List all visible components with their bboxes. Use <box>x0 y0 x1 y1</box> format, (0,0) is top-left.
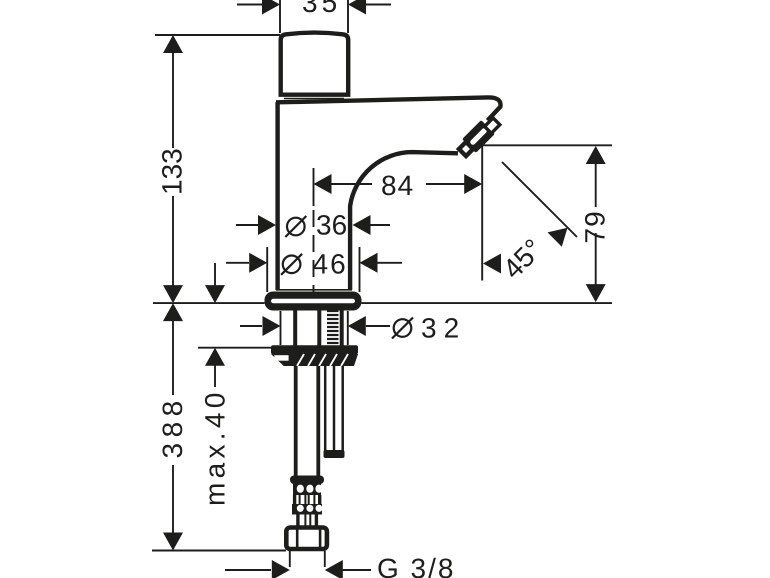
body left edge <box>275 102 279 290</box>
arrow max40 down to surface <box>205 285 225 303</box>
dim o46 tail left <box>226 262 249 264</box>
dim 79 line lower <box>595 233 597 286</box>
left pipe left edge <box>294 366 298 477</box>
spout vertical extension line <box>481 145 483 280</box>
svg-text:36: 36 <box>316 210 347 241</box>
dim 133 line lower <box>172 196 174 287</box>
arrow 35 left <box>262 0 280 15</box>
dim G38 extension stub right <box>324 551 326 567</box>
shank pipe right thick line <box>317 310 321 346</box>
label o36 <box>285 216 306 237</box>
dim 79 line upper <box>595 162 597 207</box>
arrow o46 right <box>360 253 378 273</box>
handle neck line <box>284 98 344 100</box>
right tube right edge <box>341 366 344 452</box>
aerator housing <box>462 120 495 153</box>
arrow G38 right <box>325 560 343 578</box>
handle knob <box>281 33 349 95</box>
mounting surface line left <box>153 302 265 304</box>
svg-text:388: 388 <box>157 395 188 458</box>
svg-text:35: 35 <box>302 0 341 18</box>
45 degree diagonal line <box>502 162 577 237</box>
flex hose connector <box>290 476 324 527</box>
dim o32 extension line right <box>347 311 349 345</box>
dim 133 line upper <box>172 51 174 148</box>
dim 35 tail right <box>366 4 391 6</box>
arrow 84 left <box>314 174 332 194</box>
arrow 388 bottom <box>163 533 183 551</box>
hex nut G38 <box>286 526 327 549</box>
dim o32 tail left <box>240 325 262 327</box>
dim o46 extension line right <box>359 247 361 292</box>
threaded rod hatch <box>327 311 339 343</box>
nut skirt <box>271 354 358 366</box>
body top and spout top line <box>276 97 501 120</box>
svg-text:32: 32 <box>421 313 466 344</box>
dim max40 upper tail <box>214 263 216 287</box>
dim 35 tail left <box>237 4 262 6</box>
dim 84 tail left <box>331 183 372 185</box>
svg-text:max.40: max.40 <box>200 388 231 506</box>
arrow 79 top <box>586 146 606 164</box>
dim G38 extension stub left <box>289 551 291 567</box>
aerator white slot <box>469 127 488 146</box>
arrow 388 top <box>163 303 183 321</box>
right tube left edge <box>324 366 327 452</box>
center axis dashed line <box>313 210 315 292</box>
mounting nut <box>271 345 358 366</box>
arrow 84 right <box>464 174 482 194</box>
nut top bar <box>271 345 358 354</box>
arrow 133 top <box>163 35 183 53</box>
dim o32 tail right <box>366 325 390 327</box>
arrow o32 right <box>348 316 366 336</box>
arrow o36 right <box>353 215 371 235</box>
dim max40 lower tail <box>214 364 216 387</box>
nut skirt hatch lines <box>297 354 348 366</box>
dim G38 tail right <box>343 569 372 571</box>
hose mid ribs <box>295 495 320 505</box>
hex facet right <box>319 526 322 549</box>
dim G38 tail left <box>225 569 271 571</box>
hose ball section 1 <box>293 483 321 495</box>
dim o46 extension line left <box>266 247 268 292</box>
arrow 35 right <box>348 0 366 15</box>
escutcheon flange <box>265 292 362 311</box>
arrow G38 left <box>272 560 290 578</box>
hose top collar <box>290 476 324 485</box>
dim 388 bottom extension line <box>152 550 286 552</box>
nut left notch <box>274 355 288 361</box>
arrow 133 bottom <box>163 285 183 303</box>
left pipe right edge <box>316 366 320 477</box>
faucet outline group <box>276 33 501 290</box>
threaded rod right edge <box>340 310 344 346</box>
right tube bottom cap <box>324 450 345 458</box>
dim 388 line lower <box>172 465 174 534</box>
right tube middle line <box>333 366 336 452</box>
hose ball section 2 <box>292 504 322 515</box>
spout underside curve <box>350 152 458 290</box>
dim max40 nut extension line <box>198 347 272 349</box>
ball white arches row1 <box>297 485 323 493</box>
svg-text:G 3/8: G 3/8 <box>377 553 455 578</box>
dim 84 tail right <box>426 183 465 185</box>
arrow 79 bottom <box>586 284 606 302</box>
aerator tip ring <box>459 142 473 156</box>
arrow o36 left <box>258 215 276 235</box>
dim 84 center extension line <box>313 168 315 206</box>
dim o46 tail right <box>377 262 402 264</box>
shank assembly <box>295 310 342 346</box>
arrow 45deg at vertical <box>483 254 501 274</box>
hex facet left <box>296 526 299 549</box>
dim 35 extension line right <box>347 0 349 33</box>
label o32 <box>392 318 413 339</box>
dim o36 tail right <box>368 224 390 226</box>
dim 133 top extension line <box>155 34 280 36</box>
arrow 45deg at diagonal <box>548 228 568 247</box>
arrow max40 up to nut line <box>205 348 225 366</box>
shank pipe left thick line <box>293 310 297 346</box>
svg-text:133: 133 <box>157 148 188 195</box>
arrow o46 left <box>249 253 267 273</box>
supply pipes <box>296 366 343 477</box>
aerator group <box>459 118 500 156</box>
label o46 <box>281 254 302 275</box>
dim 79 top extension line <box>482 144 612 146</box>
dim 388 line upper <box>172 319 174 395</box>
body bottom junction line <box>276 289 352 291</box>
arrow o32 left <box>263 316 281 336</box>
ball white arches row2 <box>297 505 323 512</box>
dim 35 extension line left <box>279 0 281 33</box>
svg-text:79: 79 <box>580 210 611 243</box>
svg-text:46: 46 <box>313 249 348 280</box>
dim o32 extension line left <box>280 311 282 345</box>
svg-text:84: 84 <box>381 170 414 201</box>
hose lower ribs <box>298 514 317 526</box>
dim o36 tail left <box>236 224 259 226</box>
aerator step ring <box>485 118 500 133</box>
mounting surface line right <box>362 302 613 304</box>
